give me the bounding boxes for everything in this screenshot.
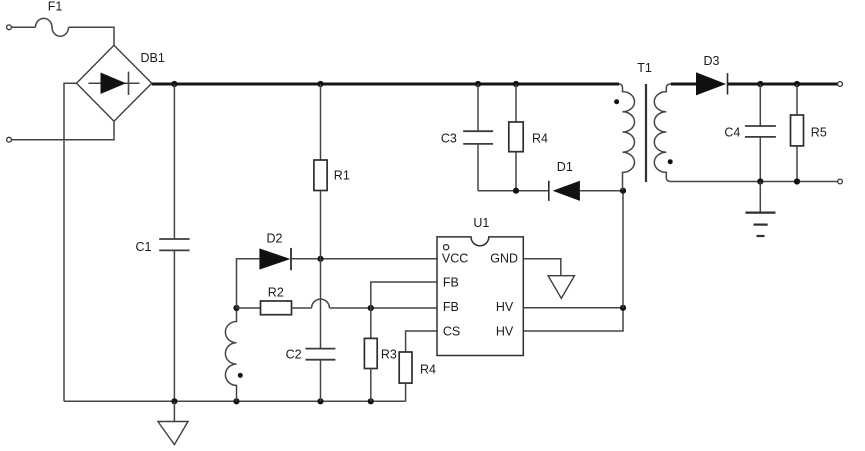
transformer T1 primary winding bbox=[619, 84, 635, 191]
wire bbox=[69, 27, 115, 45]
capacitor C1 bbox=[159, 84, 189, 401]
node aux winding bottom bbox=[233, 398, 239, 404]
ground bbox=[158, 401, 188, 444]
node snubber junction bbox=[513, 188, 519, 194]
earth ground bbox=[745, 182, 775, 237]
svg-text:C3: C3 bbox=[441, 132, 457, 146]
svg-text:FB: FB bbox=[443, 275, 459, 289]
svg-text:D1: D1 bbox=[557, 160, 573, 174]
transformer core bbox=[645, 84, 647, 182]
node C4 bottom bbox=[757, 178, 763, 184]
svg-text:C4: C4 bbox=[724, 126, 740, 140]
node R4 top bbox=[513, 81, 519, 87]
node C3 top bbox=[475, 81, 481, 87]
diode D1 bbox=[549, 181, 580, 201]
wire CS bbox=[406, 331, 437, 352]
capacitor C3 bbox=[463, 84, 493, 191]
node FB junction bbox=[368, 305, 374, 311]
resistor R3 bbox=[364, 308, 377, 401]
transformer T1 secondary winding bbox=[654, 84, 671, 182]
capacitor C4 bbox=[745, 84, 776, 182]
svg-text:R3: R3 bbox=[381, 347, 397, 361]
svg-text:DB1: DB1 bbox=[141, 51, 165, 65]
wire aux to D2 bbox=[237, 259, 260, 308]
ground (U1 GND) bbox=[548, 276, 574, 299]
wire output rail (thick) bbox=[728, 82, 838, 85]
svg-text:C2: C2 bbox=[286, 347, 302, 361]
node R1 top bbox=[317, 81, 323, 87]
svg-text:D2: D2 bbox=[267, 232, 283, 246]
wire D2 to VCC bbox=[291, 258, 437, 260]
node HV junction bbox=[620, 305, 626, 311]
svg-text:R4: R4 bbox=[532, 132, 548, 146]
node aux winding top bbox=[233, 305, 239, 311]
input terminal (neutral) bbox=[7, 137, 12, 142]
wire D1 to switch node bbox=[580, 190, 623, 192]
wire snubber bottom bbox=[478, 190, 549, 192]
node R5 top bbox=[794, 81, 800, 87]
svg-text:CS: CS bbox=[443, 325, 460, 339]
wire HV2 bbox=[523, 308, 623, 331]
resistor R1 bbox=[314, 84, 327, 259]
resistor R2 bbox=[237, 301, 312, 315]
wire hop over R1 line bbox=[312, 299, 330, 308]
input terminal (line) bbox=[7, 25, 12, 30]
phase dot primary bbox=[614, 99, 619, 104]
wire secondary to D3 (thick) bbox=[671, 82, 696, 85]
op-amp U1 (controller IC) bbox=[437, 237, 523, 356]
svg-text:R5: R5 bbox=[811, 126, 827, 140]
node VCC wire x R1 line bbox=[317, 256, 323, 262]
diode D2 bbox=[259, 248, 291, 270]
wire R1 line down to C2 bbox=[320, 259, 322, 349]
output terminal (plus) bbox=[838, 82, 843, 87]
svg-text:U1: U1 bbox=[473, 216, 489, 230]
node C2 bottom bbox=[317, 398, 323, 404]
svg-text:T1: T1 bbox=[637, 61, 652, 75]
capacitor C2 bbox=[306, 349, 336, 402]
phase dot secondary bbox=[668, 159, 673, 164]
node C1 top bbox=[171, 81, 177, 87]
svg-text:R1: R1 bbox=[334, 169, 350, 183]
bottom rail (DC minus) bbox=[64, 400, 406, 402]
node C4 top bbox=[757, 81, 763, 87]
bridge rectifier DB1 bbox=[77, 45, 152, 121]
wire output bottom rail bbox=[671, 181, 838, 183]
resistor R4 (snubber) bbox=[509, 84, 523, 191]
node D1 junction bbox=[620, 188, 626, 194]
wire GND pin bbox=[523, 259, 561, 276]
svg-text:C1: C1 bbox=[136, 240, 152, 254]
inductor aux winding bbox=[225, 308, 236, 401]
svg-text:FB: FB bbox=[443, 300, 459, 314]
output terminal (minus) bbox=[838, 179, 843, 184]
fuse F1 bbox=[36, 18, 69, 36]
svg-text:HV: HV bbox=[496, 325, 514, 339]
wire (DC minus from bridge left) bbox=[64, 83, 77, 401]
wire (bridge bottom to input) bbox=[12, 121, 114, 140]
diode D3 bbox=[696, 72, 728, 95]
wire bbox=[12, 26, 36, 28]
resistor R5 bbox=[791, 84, 804, 182]
svg-text:F1: F1 bbox=[48, 0, 63, 14]
resistor R4 (sense) bbox=[399, 352, 412, 401]
wire switch node vertical bbox=[622, 191, 624, 308]
svg-text:R4: R4 bbox=[420, 363, 436, 377]
svg-text:GND: GND bbox=[490, 252, 518, 266]
wire DC+ rail (thick) bbox=[152, 82, 619, 85]
svg-text:D3: D3 bbox=[704, 54, 720, 68]
node R3 bottom bbox=[368, 398, 374, 404]
wire FB1 bbox=[371, 282, 437, 308]
phase dot aux bbox=[238, 373, 243, 378]
svg-text:HV: HV bbox=[496, 300, 514, 314]
node C1 bottom bbox=[171, 398, 177, 404]
wire hop to FB bbox=[329, 307, 437, 309]
svg-text:VCC: VCC bbox=[442, 252, 468, 266]
node R5 bottom bbox=[794, 178, 800, 184]
svg-text:R2: R2 bbox=[268, 286, 284, 300]
wire HV1 bbox=[523, 307, 623, 309]
